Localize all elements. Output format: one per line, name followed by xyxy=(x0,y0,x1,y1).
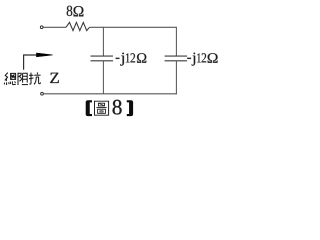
wire (right edge, lower segment from capacitor C2 to bottom wire) xyxy=(175,61,177,95)
wire (capacitor C1 branch, upper segment) xyxy=(102,27,104,56)
wire (top wire from terminal to resistor) xyxy=(43,26,66,28)
label 8Ω (resistor value) xyxy=(67,6,73,16)
terminal T1 (top-left input terminal circle) xyxy=(40,26,43,29)
resistor 8Ω (zigzag) xyxy=(66,22,90,30)
label 阻 (hand-drawn glyph of 阻) xyxy=(18,73,28,85)
label -j12Ω (capacitor C2 value) xyxy=(187,58,191,59)
capacitor C2 (-j12Ω) plates xyxy=(165,55,188,57)
wire (capacitor C1 branch, lower segment) xyxy=(102,61,104,94)
arrow (impedance direction arrow into circuit) xyxy=(24,55,39,70)
label 總 (hand-drawn glyph of 總) xyxy=(4,73,16,85)
caption 圖 (hand-drawn glyph of 圖) xyxy=(95,101,109,115)
terminal T2 (bottom-left input terminal circle) xyxy=(41,92,44,95)
caption bracket 【 xyxy=(86,100,92,116)
wire (right edge, upper segment to capacitor C2) xyxy=(175,27,177,56)
wire (bottom wire) xyxy=(44,93,177,95)
capacitor C1 (-j12Ω) plates xyxy=(91,55,114,57)
caption 8 (figure number) xyxy=(113,100,122,115)
caption bracket 】 xyxy=(127,100,133,116)
label 抗 (hand-drawn glyph of 抗) xyxy=(29,72,41,84)
label -j12Ω (capacitor C1 value) xyxy=(116,58,120,59)
wire (top wire from resistor to top-right corner) xyxy=(90,26,177,28)
label Z (total impedance Z) xyxy=(50,73,59,83)
